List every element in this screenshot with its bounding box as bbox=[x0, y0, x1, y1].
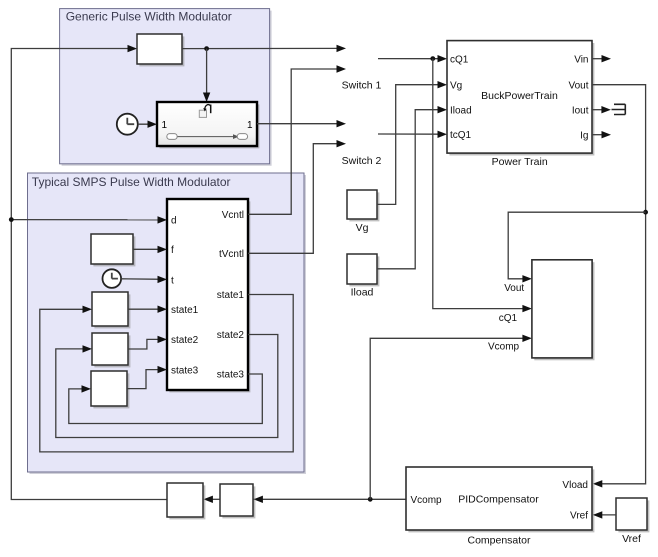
svg-text:Power Train: Power Train bbox=[492, 156, 548, 168]
svg-text:Switch 1: Switch 1 bbox=[342, 80, 382, 92]
svg-text:Vout: Vout bbox=[504, 283, 524, 294]
svg-text:Iload: Iload bbox=[351, 287, 374, 299]
svg-text:state1: state1 bbox=[171, 305, 199, 316]
svg-text:Vin: Vin bbox=[574, 54, 588, 65]
svg-text:state3: state3 bbox=[217, 370, 245, 381]
svg-text:Vout: Vout bbox=[568, 80, 588, 91]
svg-text:Vref: Vref bbox=[622, 533, 641, 545]
svg-text:Iload: Iload bbox=[450, 105, 472, 116]
svg-text:Vcomp: Vcomp bbox=[411, 495, 443, 506]
svg-text:state1: state1 bbox=[217, 290, 245, 301]
svg-text:t: t bbox=[171, 275, 174, 286]
svg-text:1: 1 bbox=[247, 120, 253, 131]
svg-text:cQ1: cQ1 bbox=[499, 313, 518, 324]
svg-text:cQ1: cQ1 bbox=[450, 54, 469, 65]
svg-text:Ig: Ig bbox=[580, 130, 588, 141]
svg-text:state2: state2 bbox=[217, 330, 245, 341]
svg-text:Switch 2: Switch 2 bbox=[342, 155, 382, 167]
svg-text:tcQ1: tcQ1 bbox=[450, 130, 472, 141]
svg-text:Compensator: Compensator bbox=[467, 535, 531, 547]
svg-text:Iout: Iout bbox=[572, 105, 589, 116]
svg-text:state2: state2 bbox=[171, 335, 199, 346]
svg-text:Vg: Vg bbox=[450, 80, 462, 91]
svg-text:Vcomp: Vcomp bbox=[488, 342, 520, 353]
svg-text:Vref: Vref bbox=[570, 511, 588, 522]
svg-text:tVcntl: tVcntl bbox=[219, 249, 244, 260]
svg-text:d: d bbox=[171, 216, 177, 227]
svg-text:state3: state3 bbox=[171, 365, 199, 376]
svg-text:Vload: Vload bbox=[562, 480, 588, 491]
svg-text:Generic Pulse Width Modulator: Generic Pulse Width Modulator bbox=[66, 10, 232, 24]
svg-text:BuckPowerTrain: BuckPowerTrain bbox=[481, 90, 558, 102]
svg-text:1: 1 bbox=[162, 120, 168, 131]
svg-text:f: f bbox=[171, 245, 174, 256]
svg-text:Typical SMPS Pulse Width Modul: Typical SMPS Pulse Width Modulator bbox=[32, 175, 231, 189]
svg-text:Vcntl: Vcntl bbox=[222, 210, 244, 221]
svg-text:Vg: Vg bbox=[356, 222, 369, 234]
svg-text:PIDCompensator: PIDCompensator bbox=[458, 494, 539, 506]
